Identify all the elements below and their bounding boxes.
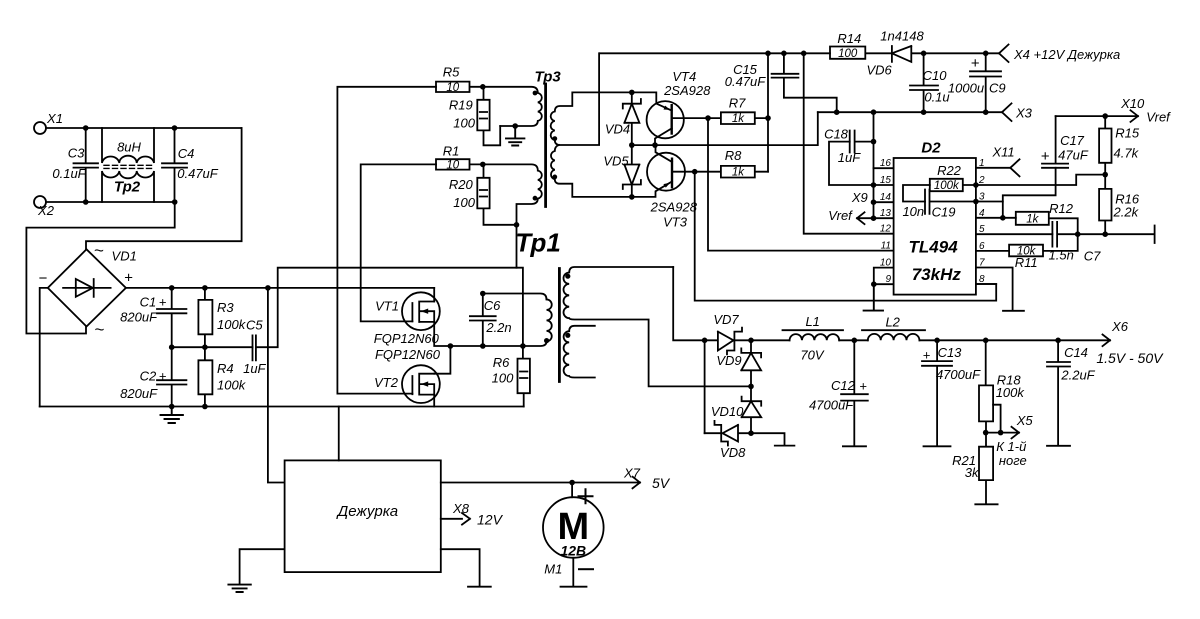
transistor VT1 MOSFET <box>402 292 440 330</box>
capacitor C6 <box>470 294 496 347</box>
wire rail to X4 <box>924 52 999 54</box>
svg-text:1k: 1k <box>732 167 745 179</box>
pin8 stub drawn with VT3 path <box>976 283 996 285</box>
transformer Tp3 primary 2 <box>483 164 542 224</box>
svg-text:3: 3 <box>979 192 985 203</box>
capacitor C4 <box>162 128 187 202</box>
wire R19 bottom loop <box>484 126 501 145</box>
resistor R22 inside <box>930 179 976 191</box>
resistor R8 <box>695 166 768 178</box>
resistor R20 <box>477 164 489 208</box>
svg-text:X11: X11 <box>992 145 1015 160</box>
wire Tp3 return down to midpoint <box>517 225 523 346</box>
capacitor C3 <box>74 128 99 202</box>
node C9 top <box>983 51 989 57</box>
wire VT4 base <box>672 117 708 119</box>
node C15 bottom <box>834 109 840 115</box>
wire VCC to pin 12 <box>804 53 894 233</box>
wire VT4 collector <box>655 128 672 145</box>
wire mid rail <box>172 346 253 348</box>
minus sign motor <box>579 568 593 570</box>
svg-text:R15: R15 <box>1115 126 1140 141</box>
svg-text:C18: C18 <box>824 126 849 141</box>
svg-text:6: 6 <box>979 241 985 252</box>
motor M1 <box>543 497 604 558</box>
terminal X1 <box>34 122 46 134</box>
ground symbol Tp3 <box>506 126 524 146</box>
wire C6 to Tp1 primary top <box>483 294 547 300</box>
zener VD4 <box>623 92 641 145</box>
resistor R4 <box>198 347 212 406</box>
node C18 branch <box>871 109 877 115</box>
transformer Tp1 secondary B <box>564 326 595 378</box>
wire X3 rail <box>818 111 1002 113</box>
svg-text:1.5V - 50V: 1.5V - 50V <box>1096 350 1164 366</box>
node VT3 base R8 <box>692 169 698 175</box>
node VD7 cathode L1 <box>748 338 754 344</box>
svg-text:1uF: 1uF <box>243 361 266 376</box>
node R15 top <box>1102 113 1108 119</box>
node R7 bias <box>765 115 771 121</box>
svg-text:X6: X6 <box>1111 319 1129 334</box>
svg-text:1uF: 1uF <box>838 150 861 165</box>
node pin2 <box>973 182 979 188</box>
node VT4 base R7 <box>705 115 711 121</box>
svg-text:R11: R11 <box>1015 255 1038 270</box>
svg-text:R12: R12 <box>1049 201 1074 216</box>
plus sign motor <box>579 489 593 503</box>
svg-text:~: ~ <box>95 320 105 339</box>
wire bridge minus to ground rail <box>40 288 48 407</box>
svg-text:X4 +12V Дежурка: X4 +12V Дежурка <box>1013 47 1120 62</box>
node C14 top <box>1055 338 1061 344</box>
resistor R12 <box>1016 212 1078 234</box>
svg-text:1n4148: 1n4148 <box>880 29 924 44</box>
wire VD7 anode down to VD8 <box>704 340 706 433</box>
terminal X3 <box>1002 103 1012 121</box>
pin3 stub <box>976 201 1003 203</box>
svg-text:2.2k: 2.2k <box>1113 205 1140 220</box>
wire R7 R8 bias vertical <box>767 53 769 171</box>
node VD4 top <box>629 90 635 96</box>
svg-text:R20: R20 <box>449 177 474 192</box>
svg-text:100k: 100k <box>996 385 1026 400</box>
capacitor C12 <box>841 340 868 446</box>
transistor VT4 <box>647 101 684 138</box>
svg-text:100: 100 <box>492 370 514 385</box>
wire L1 to L2 <box>839 339 868 341</box>
svg-text:VD4: VD4 <box>605 121 630 136</box>
node VD8 anode <box>748 430 754 436</box>
node R15 R16 <box>1102 172 1108 178</box>
phase dot Tp3 secondary A <box>552 136 557 141</box>
phase dot Tp1 secondary A <box>565 274 570 279</box>
svg-text:VT1: VT1 <box>375 298 399 313</box>
transistor VT3 <box>647 153 685 191</box>
svg-text:2.2n: 2.2n <box>485 320 511 335</box>
svg-text:C14: C14 <box>1064 345 1088 360</box>
svg-text:D2: D2 <box>921 139 941 156</box>
transformer Tp1 secondary A <box>564 267 752 386</box>
svg-text:R22: R22 <box>937 163 962 178</box>
diode VD6 <box>892 46 924 62</box>
capacitor C13 <box>922 340 952 446</box>
svg-text:C3: C3 <box>68 146 85 161</box>
svg-text:Vref: Vref <box>1146 110 1171 125</box>
node C4 bottom <box>172 199 178 205</box>
wire VT3 base <box>672 171 695 173</box>
svg-text:8uH: 8uH <box>117 140 141 155</box>
svg-text:X10: X10 <box>1120 96 1145 111</box>
terminal X6 arrow <box>1103 335 1111 347</box>
wire standby ground drop <box>338 407 340 461</box>
node C18 right <box>871 139 877 145</box>
pin5 wire to C7 <box>976 233 1053 235</box>
node ground C2 <box>169 404 175 410</box>
svg-text:R4: R4 <box>217 361 234 376</box>
wire X1 rail to bridge AC1 <box>86 128 242 249</box>
node C13 top <box>934 338 940 344</box>
node X9 pin14 <box>871 199 877 205</box>
resistor R3 <box>198 288 212 347</box>
svg-text:16: 16 <box>880 158 892 169</box>
wire X8 arrow <box>441 513 470 525</box>
node standby feed <box>265 285 271 291</box>
svg-text:1.5n: 1.5n <box>1049 248 1074 263</box>
wire C5 to primary return <box>256 268 517 348</box>
svg-text:10n: 10n <box>902 204 924 219</box>
svg-text:L2: L2 <box>885 315 900 330</box>
svg-text:C19: C19 <box>932 205 956 220</box>
transformer Tp3 secondary winding B <box>551 145 632 197</box>
wire collector rail <box>632 112 818 145</box>
node R18 R21 <box>983 430 989 436</box>
svg-text:R19: R19 <box>449 97 473 112</box>
pin16 stub <box>874 167 894 169</box>
svg-text:7: 7 <box>979 258 985 269</box>
capacitor C10 <box>910 53 938 112</box>
phase dot Tp3 primary 2 <box>533 196 538 201</box>
svg-text:820uF: 820uF <box>120 386 158 401</box>
wire VT3 emitter <box>632 182 672 197</box>
node pin4 C17 <box>1000 215 1006 221</box>
svg-text:X7: X7 <box>623 466 641 481</box>
svg-text:C9: C9 <box>989 80 1006 95</box>
standby block box <box>285 460 441 572</box>
svg-text:100k: 100k <box>217 378 247 393</box>
node bias top <box>765 51 771 57</box>
pin9 stub <box>874 283 894 285</box>
resistor R14 <box>830 47 892 59</box>
bridge VD1 inner diode <box>63 279 111 297</box>
svg-text:15: 15 <box>880 175 892 186</box>
wire VT4 emitter <box>632 92 672 110</box>
svg-text:R1: R1 <box>443 144 460 159</box>
pin10 stub <box>874 268 894 285</box>
svg-text:0.1u: 0.1u <box>924 90 949 105</box>
svg-text:VT3: VT3 <box>663 215 688 230</box>
svg-text:100k: 100k <box>934 180 960 192</box>
svg-text:5: 5 <box>979 224 985 235</box>
transformer Tp3 primary 1 <box>483 87 542 126</box>
svg-text:R5: R5 <box>443 64 460 79</box>
svg-text:4.7k: 4.7k <box>1114 146 1140 161</box>
node collectors <box>652 142 658 148</box>
svg-text:11: 11 <box>881 241 891 252</box>
bridge rectifier VD1 <box>48 249 126 326</box>
capacitor C17 <box>1042 116 1068 168</box>
svg-text:C5: C5 <box>246 317 263 332</box>
node C10 bottom <box>921 109 927 115</box>
svg-text:12В: 12В <box>560 543 586 559</box>
svg-text:2SA928: 2SA928 <box>650 200 698 215</box>
node C12 top <box>852 338 858 344</box>
resistor R1 <box>436 159 483 169</box>
phase dot Tp3 secondary B <box>552 175 557 180</box>
inductor L1 <box>783 330 844 340</box>
svg-text:M1: M1 <box>544 562 562 577</box>
terminal X11 <box>1010 159 1019 176</box>
node VD5 bottom <box>629 194 635 200</box>
svg-text:Дежурка: Дежурка <box>336 503 399 520</box>
capacitor C7 <box>1052 222 1154 247</box>
ground pin9 <box>864 284 883 310</box>
wire C18 left to pin15 <box>829 142 894 185</box>
wire X2 rail to bridge AC2 <box>26 202 174 334</box>
zener VD10 <box>742 386 762 433</box>
svg-text:47uF: 47uF <box>1058 147 1089 162</box>
svg-text:1k: 1k <box>732 113 745 125</box>
svg-text:9: 9 <box>885 274 891 285</box>
pin14 stub X9 <box>874 201 894 203</box>
ground symbol standby <box>228 585 250 592</box>
svg-text:C1: C1 <box>140 294 157 309</box>
pin4 wire <box>976 217 1016 219</box>
node C15 top <box>781 51 787 57</box>
node pin3 <box>973 199 979 205</box>
svg-text:C10: C10 <box>923 68 948 83</box>
node R3 top <box>202 285 208 291</box>
zener VD9 <box>741 340 761 386</box>
terminal X2 <box>34 196 46 208</box>
svg-text:4700uF: 4700uF <box>936 367 981 382</box>
svg-text:0.1uF: 0.1uF <box>52 166 86 181</box>
svg-text:R6: R6 <box>493 355 510 370</box>
resistor R19 <box>477 87 489 131</box>
svg-text:X2: X2 <box>37 203 55 218</box>
inductor L2 <box>862 330 925 340</box>
wire standby ground right <box>441 549 491 587</box>
node C6 top <box>480 291 486 297</box>
pin2 wire to divider <box>976 175 1105 185</box>
svg-text:VD5: VD5 <box>603 153 629 168</box>
wire Tp1 secondary top to VD7 <box>673 267 704 340</box>
svg-text:2SA928: 2SA928 <box>663 83 711 98</box>
svg-text:13: 13 <box>880 208 892 219</box>
svg-text:10: 10 <box>446 82 459 94</box>
node center tap VD9 VD10 <box>748 384 754 390</box>
diode VD8 schottky <box>705 421 751 446</box>
svg-text:Тр2: Тр2 <box>114 179 141 196</box>
svg-text:C7: C7 <box>1084 249 1101 264</box>
wire midpoint line <box>450 345 523 347</box>
node motor tap <box>569 480 575 486</box>
wire VD7 to L1 <box>751 339 790 341</box>
wire R22 to C19 loop <box>903 185 930 202</box>
wire VT4 base to pin11 <box>708 118 894 251</box>
wire VT3 collector <box>656 145 673 162</box>
node VD7 anode <box>702 338 708 344</box>
wire C18 vertical to pins <box>873 112 875 218</box>
wire VT2 drain <box>434 346 450 374</box>
phase dot Tp1 secondary B <box>565 333 570 338</box>
phase dot Tp3 primary 1 <box>533 91 538 96</box>
wire motor plus <box>571 483 573 498</box>
svg-text:1000u: 1000u <box>948 80 984 95</box>
resistor R15 <box>1099 116 1111 175</box>
node VCC pin12 top <box>801 51 807 57</box>
node X5 tap <box>998 430 1004 436</box>
svg-text:ноге: ноге <box>999 453 1027 468</box>
svg-text:3k: 3k <box>965 465 980 480</box>
svg-text:C4: C4 <box>178 146 195 161</box>
wire X7 5V output <box>441 477 640 489</box>
svg-text:VD7: VD7 <box>713 312 739 327</box>
svg-text:+: + <box>159 369 167 384</box>
wire ground rail <box>40 406 524 408</box>
terminator bar <box>1154 226 1156 244</box>
svg-text:X8: X8 <box>452 501 470 516</box>
capacitor C19 <box>925 190 976 214</box>
node C6 bottom <box>480 343 486 349</box>
svg-text:C6: C6 <box>484 298 501 313</box>
inductor Tp2 winding 2 <box>102 171 154 202</box>
node VD6 C10 <box>921 51 927 57</box>
node Tp3 primary1 ground <box>512 123 518 129</box>
node C4 top <box>172 125 178 131</box>
transistor VT2 MOSFET <box>402 365 440 403</box>
pin6 wire R11 <box>976 234 1078 256</box>
svg-text:73kHz: 73kHz <box>912 265 962 284</box>
svg-text:70V: 70V <box>800 348 824 363</box>
wire VT3 base to pin8 rail <box>695 172 997 301</box>
svg-text:+: + <box>923 348 931 363</box>
wire VT1 gate from R1 <box>361 164 436 321</box>
svg-text:Vref: Vref <box>828 208 853 223</box>
wire VD8 to output ground <box>751 433 794 445</box>
svg-text:1k: 1k <box>1026 214 1039 226</box>
svg-text:+: + <box>124 270 133 287</box>
svg-text:2.2uF: 2.2uF <box>1060 368 1095 383</box>
wire standby feed down <box>268 288 285 483</box>
node R16 bottom <box>1102 231 1108 237</box>
svg-text:TL494: TL494 <box>909 238 959 257</box>
wire R18 tap to X5 <box>993 405 1001 433</box>
node C7 R12 R11 <box>1075 231 1081 237</box>
svg-text:VD6: VD6 <box>866 62 892 77</box>
svg-text:Тр3: Тр3 <box>534 68 561 85</box>
wire bridge plus rail <box>126 287 434 289</box>
svg-text:VT4: VT4 <box>672 69 696 84</box>
node C3 bottom <box>83 199 89 205</box>
svg-text:~: ~ <box>94 241 104 260</box>
svg-text:X1: X1 <box>46 111 63 126</box>
svg-text:VD9: VD9 <box>716 353 741 368</box>
core Tp2 <box>104 165 152 168</box>
svg-text:VD8: VD8 <box>720 445 746 460</box>
wire VT1 drain <box>433 288 435 302</box>
wire C17 bottom to pin4 <box>1003 168 1056 218</box>
capacitor C1 <box>157 288 186 347</box>
svg-text:12V: 12V <box>477 512 504 528</box>
svg-text:Тр1: Тр1 <box>515 228 561 258</box>
wire X1 top rail <box>46 127 242 129</box>
core Tp1 <box>558 269 561 382</box>
svg-text:C2: C2 <box>140 369 157 384</box>
resistor R21 <box>975 433 997 505</box>
resistor R6 <box>518 346 530 407</box>
node half-bridge midpoint <box>448 343 454 349</box>
svg-text:+: + <box>1041 148 1050 165</box>
node Tp3 return <box>514 222 520 228</box>
node R5 R19 <box>480 84 486 90</box>
Vref arrow pin13 <box>857 212 874 224</box>
node mid C1C2 <box>169 344 175 350</box>
svg-text:8: 8 <box>979 274 985 285</box>
wire C17 top to Vref rail <box>1056 115 1106 117</box>
node pin13 <box>871 215 877 221</box>
pin13 stub <box>874 217 894 219</box>
svg-text:VD10: VD10 <box>711 404 744 419</box>
arrow X10 Vref <box>1105 110 1138 122</box>
svg-text:10: 10 <box>446 159 459 171</box>
svg-text:+: + <box>859 379 867 394</box>
wire X2 bottom rail <box>46 201 175 203</box>
wire VT1 source to midpoint <box>434 322 450 346</box>
wire VT2 source to ground rail <box>433 395 435 407</box>
svg-text:10: 10 <box>880 258 892 269</box>
capacitor C2 <box>157 347 186 406</box>
svg-text:R7: R7 <box>729 96 746 111</box>
node C1 top <box>169 285 175 291</box>
svg-text:5V: 5V <box>652 475 671 491</box>
capacitor C18 <box>850 131 874 153</box>
svg-text:R3: R3 <box>217 300 234 315</box>
svg-text:1: 1 <box>979 158 985 169</box>
resistor R7 <box>708 112 768 124</box>
svg-text:X5: X5 <box>1016 413 1034 428</box>
svg-text:L1: L1 <box>805 314 819 329</box>
node pin9 <box>871 281 877 287</box>
svg-text:+: + <box>971 55 980 72</box>
node C9 bottom <box>983 109 989 115</box>
diode VD7 schottky <box>705 328 751 355</box>
svg-text:100: 100 <box>453 116 475 131</box>
svg-text:4: 4 <box>979 208 985 219</box>
node pin15 <box>871 182 877 188</box>
resistor R16 <box>1099 175 1111 235</box>
pin7 wire to ground <box>976 268 1024 311</box>
resistor R18 <box>979 340 993 432</box>
svg-text:100: 100 <box>838 48 858 60</box>
capacitor C14 <box>1047 340 1070 446</box>
svg-text:X3: X3 <box>1015 106 1033 121</box>
zener VD5 <box>623 145 641 197</box>
svg-text:12: 12 <box>880 224 892 235</box>
node VD4 VD5 <box>629 142 635 148</box>
svg-text:C17: C17 <box>1060 133 1085 148</box>
wire R20 bottom <box>484 208 517 224</box>
